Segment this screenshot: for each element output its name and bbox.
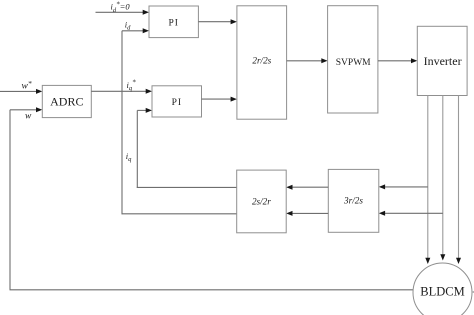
wire iq feedback vertical bbox=[136, 110, 138, 187]
svg-text:2r/2s: 2r/2s bbox=[252, 56, 271, 66]
svg-text:BLDCM: BLDCM bbox=[420, 284, 464, 298]
wire iq feedback into PI2 bbox=[137, 108, 152, 113]
block 2r/2s bbox=[237, 6, 287, 119]
wire iq feedback horizontal from 2s/2r bbox=[137, 186, 237, 188]
wire phase C vertical from Inverter bbox=[456, 96, 461, 265]
wire 3r/2s output top into 2s/2r bbox=[286, 185, 328, 190]
wire SVPWM output to Inverter bbox=[378, 58, 417, 63]
block ADRC bbox=[42, 85, 91, 117]
wire id feedback vertical bbox=[121, 31, 123, 215]
wire id feedback horizontal from 2s/2r bbox=[122, 213, 237, 215]
block SVPWM bbox=[328, 6, 378, 113]
wire id*=0 reference into PI1 bbox=[96, 10, 150, 15]
wire ADRC output iq* to PI2 bbox=[91, 89, 152, 94]
block 3r/2s bbox=[328, 169, 379, 232]
block 2s/2r bbox=[237, 170, 287, 233]
wire PI1 output to 2r/2s bbox=[198, 19, 237, 24]
svg-text:PI: PI bbox=[172, 98, 182, 108]
block BLDCM motor bbox=[413, 263, 472, 315]
wire shaft stub right of BLDCM bbox=[472, 291, 474, 293]
wire id feedback into PI1 bbox=[122, 28, 149, 33]
wire phase A tap into 3r/2s bbox=[379, 184, 428, 189]
svg-text:Inverter: Inverter bbox=[424, 54, 462, 68]
wire phase B vertical from Inverter bbox=[440, 96, 445, 261]
svg-text:w: w bbox=[25, 112, 32, 122]
wire w feedback into ADRC bbox=[10, 107, 42, 112]
wire phase B tap into 3r/2s bbox=[379, 211, 443, 216]
svg-text:2s/2r: 2s/2r bbox=[252, 196, 271, 206]
wire 3r/2s output bottom into 2s/2r bbox=[286, 211, 328, 216]
block Inverter bbox=[417, 26, 467, 95]
wire bottom speed feedback from BLDCM bbox=[10, 289, 414, 291]
wire phase A vertical from Inverter bbox=[425, 96, 430, 265]
svg-text:SVPWM: SVPWM bbox=[336, 58, 371, 68]
block PI2 q-axis bbox=[152, 86, 202, 117]
svg-text:PI: PI bbox=[168, 18, 178, 28]
block PI1 d-axis bbox=[149, 6, 198, 38]
svg-text:ADRC: ADRC bbox=[50, 94, 83, 108]
wire 2r/2s output to SVPWM bbox=[287, 58, 328, 63]
wire w feedback vertical bbox=[9, 110, 11, 290]
wire w* reference input bbox=[0, 89, 42, 94]
svg-text:3r/2s: 3r/2s bbox=[343, 196, 363, 206]
wire PI2 output to 2r/2s bbox=[202, 97, 237, 102]
